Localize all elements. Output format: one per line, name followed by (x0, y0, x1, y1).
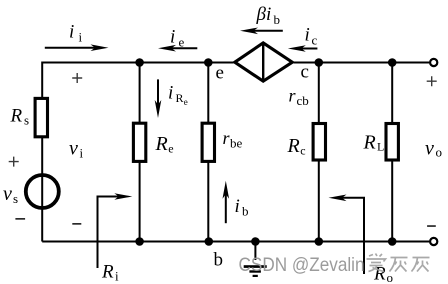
svg-text:βi: βi (256, 4, 272, 25)
svg-text:i: i (80, 146, 84, 161)
svg-text:R: R (176, 91, 184, 105)
svg-text:L: L (377, 140, 384, 154)
svg-text:e: e (168, 142, 173, 156)
svg-text:CSDN @Zevalin: CSDN @Zevalin (239, 254, 365, 276)
svg-text:v: v (425, 138, 434, 160)
svg-text:c: c (312, 33, 318, 48)
svg-text:i: i (168, 83, 173, 104)
svg-text:i: i (170, 27, 175, 48)
svg-text:b: b (242, 204, 249, 219)
svg-text:i: i (115, 269, 119, 284)
svg-text:e: e (179, 35, 185, 50)
svg-text:be: be (230, 136, 243, 151)
svg-text:e: e (216, 63, 224, 84)
svg-text:o: o (436, 145, 443, 160)
svg-text:v: v (69, 138, 78, 160)
svg-text:R: R (287, 135, 300, 157)
svg-text:R: R (101, 262, 114, 283)
svg-text:o: o (387, 270, 394, 284)
svg-text:R: R (10, 106, 23, 127)
svg-text:s: s (13, 191, 18, 206)
svg-text:R: R (155, 133, 168, 155)
svg-text:c: c (300, 144, 305, 158)
svg-text:e: e (184, 97, 188, 107)
svg-text:R: R (373, 264, 386, 284)
svg-text:b: b (214, 250, 224, 271)
svg-text:s: s (24, 113, 29, 128)
svg-text:i: i (235, 196, 240, 217)
svg-text:b: b (274, 12, 281, 27)
svg-text:c: c (301, 62, 309, 83)
svg-text:i: i (305, 25, 310, 46)
svg-text:cb: cb (297, 93, 309, 108)
svg-text:i: i (69, 22, 74, 43)
svg-text:r: r (289, 86, 297, 106)
svg-text:i: i (79, 30, 83, 45)
svg-text:R: R (363, 132, 376, 154)
svg-text:v: v (3, 183, 12, 205)
